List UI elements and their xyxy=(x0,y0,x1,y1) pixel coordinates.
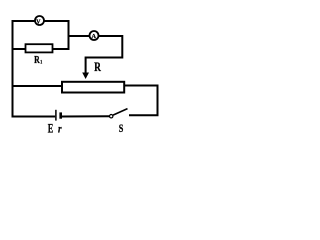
battery E,r plates xyxy=(55,110,57,121)
wire: switch to right corner xyxy=(129,114,159,116)
wire: top row (voltmeter row) xyxy=(13,21,69,49)
wire: bottom row left of battery xyxy=(12,116,56,118)
wire: mid vertical junction xyxy=(68,20,70,50)
svg-text:A: A xyxy=(92,33,97,40)
rheostat R box xyxy=(62,82,124,93)
wire: rheostat row left xyxy=(13,85,63,87)
ammeter A circle xyxy=(90,31,99,40)
svg-text:R: R xyxy=(94,61,102,75)
switch blade xyxy=(113,109,128,116)
svg-text:R: R xyxy=(34,54,40,65)
voltmeter V circle xyxy=(35,16,44,25)
wire: battery to switch xyxy=(62,115,110,117)
svg-text:E: E xyxy=(48,123,54,136)
wire: rheostat row right xyxy=(125,85,158,87)
resistor R1 xyxy=(26,44,53,52)
wire: R1 row xyxy=(13,48,69,50)
switch S pivot xyxy=(110,115,113,118)
wire: right rail xyxy=(157,85,159,116)
wire: left rail xyxy=(12,21,14,118)
svg-text:V: V xyxy=(36,18,41,25)
rheostat wiper arrowhead xyxy=(82,73,89,80)
svg-text:S: S xyxy=(119,123,124,136)
wire: ammeter row xyxy=(69,36,123,74)
